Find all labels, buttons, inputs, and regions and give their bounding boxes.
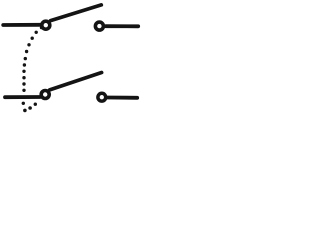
switch S1a pivot circle	[42, 21, 50, 29]
switch S1b lever (open)	[50, 73, 102, 90]
mechanical linkage (dotted line between ganged poles S1a/S1b)	[22, 26, 44, 112]
switch S1a lever (open)	[51, 5, 102, 21]
wire: pole 2 input (bottom left)	[5, 95, 40, 99]
switch S1a throw terminal circle	[95, 22, 103, 30]
switch S1b throw terminal circle	[98, 93, 106, 101]
wire: pole 2 output (bottom right)	[108, 96, 138, 100]
wire: pole 1 input (top left)	[3, 23, 40, 27]
switch S1b pivot circle	[41, 91, 49, 99]
wire: pole 1 output (top right)	[106, 24, 138, 28]
